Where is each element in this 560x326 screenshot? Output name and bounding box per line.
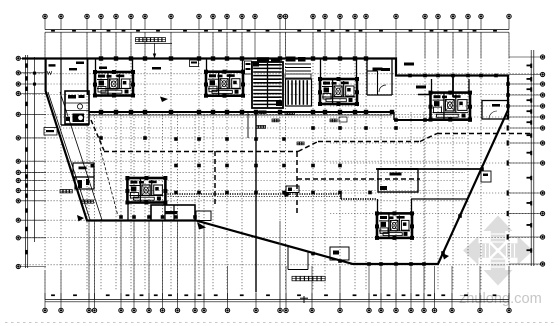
top annotation label [136, 38, 139, 42]
small annotation box left [44, 128, 57, 136]
left axis bubbles [21, 57, 47, 59]
stair-elevator core A [95, 72, 133, 96]
wall step connector x=394 [393, 112, 395, 120]
dashed outline y=151 [104, 151, 298, 153]
small box right of diagonal [481, 171, 491, 182]
room F right [482, 101, 509, 120]
ramp bottom arrow [77, 215, 84, 222]
bottom annotation text [292, 276, 296, 281]
leader flag at bottom [303, 296, 305, 303]
stair-elevator core E [431, 93, 471, 120]
furniture dash e [152, 67, 161, 70]
bottom axis bubbles [44, 293, 46, 308]
W mark [47, 71, 52, 75]
furniture dash d [99, 67, 107, 70]
wall segment above core E [418, 94, 431, 96]
corridor wall step [340, 194, 342, 199]
dashed outline y=141 [318, 141, 420, 143]
box on wall 190 [190, 60, 199, 67]
expansion joint line x=256 [255, 112, 257, 292]
left dimension line with ticks [24, 55, 26, 268]
glyph near right diagonal [442, 253, 449, 260]
faint bottom edge line [5, 322, 555, 324]
watermark logo [484, 216, 513, 232]
gray line x=280 lower [279, 221, 281, 299]
dashed outline step diag2 [420, 134, 437, 142]
interior wall y=112 [89, 111, 394, 113]
horizontal grid lines [21, 74, 541, 265]
core stub walls [95, 59, 97, 73]
dashed outline x=215 [214, 151, 216, 205]
right axis bubbles [509, 56, 540, 58]
furniture dash a [49, 64, 56, 66]
rooms along ramp [73, 163, 94, 177]
toilet room block [65, 91, 89, 124]
main stair block [252, 62, 283, 108]
structural columns [99, 56, 510, 266]
dashed outline y=133 [437, 133, 533, 135]
left aux line columns [33, 72, 36, 75]
car symbol [286, 186, 299, 193]
corridor wall y=199 [341, 198, 377, 200]
top dimension lines with ticks [45, 29, 509, 31]
room partition x=61 [60, 59, 62, 126]
dashed outline x=297 [296, 152, 298, 215]
solid grid stems bottom [45, 221, 509, 300]
furniture dash c [76, 62, 84, 65]
parking/equipment bay hatch [286, 79, 312, 106]
column ticks along right grid line [507, 114, 509, 239]
small box lower center [330, 247, 349, 260]
wall x=87.5 upper [87, 59, 89, 96]
wall y=125 below toilets [61, 124, 89, 126]
svg-text:zhulong.com: zhulong.com [459, 291, 542, 307]
wall x=453 divider [452, 76, 454, 97]
room above core D [378, 169, 418, 192]
extra arrow glyph [283, 191, 291, 198]
stair-elevator core B [206, 72, 243, 96]
arrow glyph upper [160, 97, 168, 103]
furniture dash b [69, 68, 77, 70]
bottom dimension lines with ticks [45, 298, 509, 300]
tiny annotations below wall [259, 111, 261, 114]
bottom room block [151, 205, 195, 221]
interior wall y=169 [376, 168, 481, 170]
corridor wall y=194 [165, 193, 341, 195]
ramp dashed diagonal [100, 148, 118, 216]
stair-elevator core D [377, 213, 412, 238]
arrow glyph near ramp end [197, 222, 206, 230]
dashed outline upper diag [91, 120, 104, 151]
equipment room hatch top [286, 57, 296, 62]
interior wall y=120 [394, 119, 470, 121]
stair-elevator core C [127, 178, 165, 203]
dashed outline step diag [298, 142, 318, 152]
ramp edge diagonal [60, 92, 102, 220]
top axis bubbles [44, 19, 46, 30]
stair-elevator core F [320, 79, 357, 104]
solid grid stems top [45, 32, 509, 58]
dashed outline y=179 [297, 178, 420, 180]
upper-right rooms [366, 59, 368, 96]
box right of core B [245, 61, 252, 74]
vertical column grid lines [45, 33, 509, 291]
right dimension lines with ticks [530, 50, 532, 266]
wall stub x=248 [247, 112, 249, 138]
protruding bay [287, 246, 289, 270]
building outer wall outline [22, 59, 508, 265]
left wall inner face line [48, 92, 91, 221]
